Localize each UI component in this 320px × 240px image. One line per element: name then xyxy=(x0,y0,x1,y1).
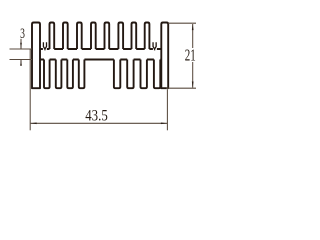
bottom fin L2 xyxy=(56,60,62,89)
dim-21 arrow down xyxy=(192,82,194,88)
dim-43.5 extension line right xyxy=(166,89,168,130)
svg-text:3: 3 xyxy=(20,26,25,42)
dim-21 extension line top xyxy=(168,22,196,24)
base bottom surface line xyxy=(40,59,161,61)
heatsink extrusion cross-section technical drawing xyxy=(0,0,211,154)
base top surface line xyxy=(40,48,161,50)
dim-3 leader above xyxy=(20,39,22,49)
bottom fin R2 xyxy=(127,60,133,89)
top fin 5 xyxy=(105,23,110,50)
svg-text:43.5: 43.5 xyxy=(85,107,108,124)
top fin 8 xyxy=(145,23,150,50)
bottom fin R3 xyxy=(141,60,147,89)
top fin 6 xyxy=(118,23,123,50)
dim-43.5 arrow left xyxy=(31,122,37,124)
heatsink left side wall xyxy=(32,23,40,89)
bottom fin L4 xyxy=(79,60,85,89)
bottom fin R1 xyxy=(114,60,120,89)
heatsink right side wall xyxy=(161,23,168,89)
right screw-slot V notch xyxy=(153,42,156,50)
top fin 2 xyxy=(63,23,68,50)
bottom fin L1 xyxy=(44,60,50,89)
left screw-slot V notch xyxy=(43,42,46,50)
bottom fin L3 xyxy=(67,60,73,89)
dim-43.5 extension line left xyxy=(29,49,31,130)
svg-text:21: 21 xyxy=(185,46,196,65)
dim-43.5 line xyxy=(31,122,167,124)
top fin 7 xyxy=(132,23,137,50)
top fin 1 xyxy=(50,23,55,50)
dim-43.5 arrow right xyxy=(161,122,167,124)
dim-21 extension line bottom xyxy=(166,87,196,89)
top fin 3 xyxy=(77,23,82,50)
dim-21 line lower xyxy=(192,62,194,88)
dim-3 arrow up xyxy=(20,60,22,66)
dim-21 arrow up xyxy=(192,24,194,30)
dim-3 arrow down xyxy=(20,43,22,49)
dim-3 extension line top xyxy=(10,48,33,50)
dim-3 leader below xyxy=(20,60,22,66)
dim-21 line upper xyxy=(192,24,194,48)
bottom fin R4 xyxy=(154,60,160,89)
dim-3 extension line bottom xyxy=(10,59,33,61)
top fin 4 xyxy=(91,23,96,50)
